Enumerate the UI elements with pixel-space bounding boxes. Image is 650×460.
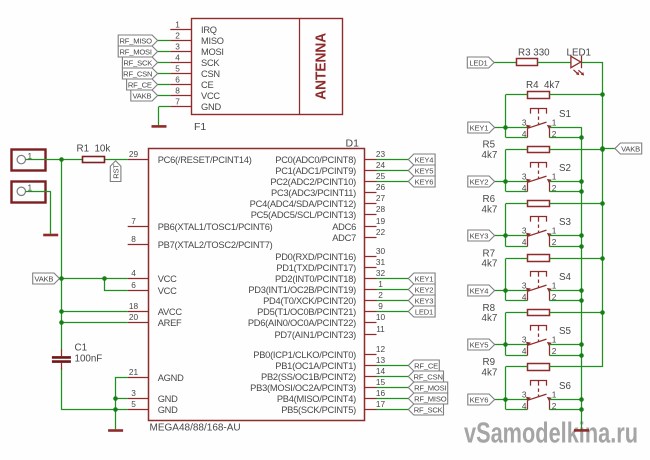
wire R7 right lead to VAKB rail bbox=[550, 258, 603, 260]
wire S4 pin2 to common bbox=[549, 300, 581, 302]
svg-text:PD7(AIN1/PCINT23): PD7(AIN1/PCINT23) bbox=[274, 330, 356, 340]
wire net KEY2 vertical bbox=[505, 150, 507, 192]
wire net KEY1 to D1 bbox=[377, 278, 409, 280]
svg-text:VAKB: VAKB bbox=[621, 144, 640, 153]
svg-text:1: 1 bbox=[175, 19, 180, 29]
pin D1.30 PD0(RXD/PCINT16) (right) bbox=[275, 246, 385, 262]
net flag LED1 at D1 bbox=[408, 306, 435, 317]
svg-text:AGND: AGND bbox=[158, 373, 184, 383]
net flag KEY4 (right col) bbox=[468, 285, 495, 296]
wire R4 left lead bbox=[506, 94, 528, 96]
wire net VAKB to F1 bbox=[158, 95, 171, 97]
pin D1.21 AGND (left) bbox=[128, 367, 184, 383]
pin D1.13 PB1(OC1A/PCINT1) (right) bbox=[275, 355, 385, 371]
pin D1.15 PB3(MOSI/OC2A/PCINT3) (right) bbox=[250, 377, 385, 393]
svg-text:S2: S2 bbox=[559, 163, 571, 174]
svg-text:4k7: 4k7 bbox=[482, 313, 498, 324]
svg-text:28: 28 bbox=[376, 204, 386, 214]
svg-text:VCC: VCC bbox=[201, 91, 220, 101]
svg-text:PD4(T0/XCK/PCINT20): PD4(T0/XCK/PCINT20) bbox=[263, 296, 356, 306]
svg-text:GND: GND bbox=[158, 394, 178, 404]
wire R6 right lead to VAKB rail bbox=[550, 203, 603, 205]
junction dots S3 bbox=[503, 201, 605, 249]
svg-text:4k7: 4k7 bbox=[482, 368, 498, 379]
wire S6 pin1 to common bbox=[549, 399, 581, 401]
svg-text:4k7: 4k7 bbox=[482, 204, 498, 215]
svg-text:RST: RST bbox=[111, 164, 120, 179]
switch S6 bbox=[526, 381, 552, 410]
junction dots S4 bbox=[503, 256, 605, 303]
svg-text:4: 4 bbox=[175, 52, 180, 62]
wire RST net: X1 to R1 to D1.29 bbox=[26, 159, 128, 161]
svg-text:2: 2 bbox=[552, 346, 557, 356]
net flag KEY3 (right col) bbox=[468, 230, 495, 241]
wire net RF_CSN to D1 bbox=[377, 376, 409, 378]
switch S5 bbox=[526, 326, 552, 356]
svg-text:KEY4: KEY4 bbox=[470, 286, 489, 295]
svg-text:PC3(ADC3/PCINT11): PC3(ADC3/PCINT11) bbox=[271, 188, 356, 198]
ground symbol bottom left bbox=[108, 429, 123, 432]
svg-text:KEY6: KEY6 bbox=[415, 177, 434, 186]
wire net KEY5 vertical bbox=[505, 313, 507, 356]
svg-text:18: 18 bbox=[129, 301, 139, 311]
svg-text:5: 5 bbox=[131, 399, 136, 409]
svg-text:RF_MOSI: RF_MOSI bbox=[414, 383, 446, 392]
net flag VAKB (left) bbox=[33, 273, 60, 284]
pin F1.2 MISO bbox=[170, 30, 223, 46]
net flag RST (vertical) bbox=[110, 161, 121, 182]
svg-text:RF_MOSI: RF_MOSI bbox=[119, 47, 151, 56]
pin numbers S1 3 1 4 2 bbox=[522, 118, 557, 139]
wire VAKB rail (right) bbox=[602, 62, 604, 367]
pin numbers S3 3 1 4 2 bbox=[522, 226, 557, 247]
svg-text:27: 27 bbox=[376, 193, 386, 203]
pin D1.32 PD2(INT0/PCINT18) (right) bbox=[275, 268, 385, 284]
svg-text:VAKB: VAKB bbox=[34, 274, 53, 283]
wire net KEY1 vertical bbox=[505, 95, 507, 138]
svg-text:19: 19 bbox=[376, 216, 386, 226]
svg-text:PB6(XTAL1/TOSC1/PCINT6): PB6(XTAL1/TOSC1/PCINT6) bbox=[158, 222, 273, 232]
svg-text:RF_MISO: RF_MISO bbox=[119, 36, 152, 45]
wire S5 pin2 to common bbox=[549, 355, 581, 357]
wire R3 to LED1 bbox=[538, 62, 571, 64]
svg-text:3: 3 bbox=[522, 335, 527, 345]
svg-text:RF_CSN: RF_CSN bbox=[123, 69, 152, 78]
svg-text:3: 3 bbox=[522, 226, 527, 236]
svg-text:PB2(SS/OC1B/PCINT2): PB2(SS/OC1B/PCINT2) bbox=[261, 372, 356, 382]
svg-text:PC1(ADC1/PCINT9): PC1(ADC1/PCINT9) bbox=[275, 166, 356, 176]
wire S3 pin2 to common bbox=[549, 246, 581, 248]
wire net KEY6 vertical bbox=[505, 367, 507, 410]
svg-text:3: 3 bbox=[522, 172, 527, 182]
svg-text:11: 11 bbox=[376, 324, 385, 334]
net flag KEY6 (right col) bbox=[468, 394, 495, 405]
net flag VAKB (right) bbox=[615, 143, 642, 154]
wire R6 left lead bbox=[506, 203, 528, 205]
svg-text:1: 1 bbox=[552, 390, 557, 400]
svg-text:MEGA48/88/168-AU: MEGA48/88/168-AU bbox=[150, 423, 241, 434]
pin D1.8 PB7(XTAL2/TOSC2/PCINT7) (left) bbox=[128, 234, 273, 250]
pin D1.5 GND (left) bbox=[128, 399, 178, 415]
svg-text:PC2(ADC2/PCINT10): PC2(ADC2/PCINT10) bbox=[270, 177, 356, 187]
wire net RF_SCK to D1 bbox=[377, 409, 409, 411]
pin D1.29 PC6(/RESET/PCINT14) (left) bbox=[128, 149, 252, 165]
svg-text:3: 3 bbox=[522, 390, 527, 400]
svg-text:S1: S1 bbox=[559, 109, 571, 120]
svg-text:PD6(AIN0/OC0A/PCINT22): PD6(AIN0/OC0A/PCINT22) bbox=[248, 318, 356, 328]
svg-text:100nF: 100nF bbox=[75, 354, 103, 365]
wire VAKB vertical rail (left) bbox=[61, 160, 63, 410]
svg-text:KEY3: KEY3 bbox=[470, 231, 489, 240]
wire R8 right lead to VAKB rail bbox=[550, 312, 603, 314]
net flag VAKB bbox=[131, 90, 158, 101]
ground symbol under F1 bbox=[152, 125, 167, 128]
svg-text:4: 4 bbox=[522, 346, 527, 356]
wire net RF_MOSI to D1 bbox=[377, 387, 409, 389]
svg-text:4k7: 4k7 bbox=[482, 150, 498, 161]
value label R9 4k7 bbox=[482, 357, 498, 378]
wire net KEY3 vertical bbox=[505, 204, 507, 247]
wire S1 pin2 to common bbox=[549, 137, 581, 139]
net flag RF_SCK at D1 bbox=[408, 404, 443, 415]
svg-text:F1: F1 bbox=[194, 121, 206, 133]
net flag RF_SCK bbox=[122, 57, 157, 68]
ground symbol under X2 bbox=[43, 234, 58, 237]
svg-text:2: 2 bbox=[175, 30, 180, 40]
svg-text:KEY1: KEY1 bbox=[470, 123, 489, 132]
net flag RF_MOSI bbox=[118, 46, 157, 57]
svg-text:7: 7 bbox=[131, 216, 136, 226]
wire net LED1 flag to R3 bbox=[494, 62, 517, 64]
svg-text:VAKB: VAKB bbox=[132, 91, 151, 100]
resistor R7 bbox=[528, 255, 550, 262]
svg-text:32: 32 bbox=[376, 268, 386, 278]
wire AVCC bbox=[62, 311, 128, 313]
wire net RF_CSN to F1 bbox=[158, 73, 171, 75]
capacitor C1 bbox=[52, 350, 71, 370]
svg-text:PC4(ADC4/SDA/PCINT12): PC4(ADC4/SDA/PCINT12) bbox=[250, 199, 356, 209]
svg-text:24: 24 bbox=[376, 160, 386, 170]
svg-text:S4: S4 bbox=[559, 272, 572, 283]
net flag RF_CSN bbox=[122, 68, 157, 79]
svg-text:S3: S3 bbox=[559, 217, 572, 228]
wire R5 right lead to VAKB rail bbox=[550, 149, 603, 151]
resistor R1 bbox=[83, 157, 105, 163]
svg-text:4k7: 4k7 bbox=[482, 259, 498, 270]
resistor R5 bbox=[528, 147, 550, 153]
wire net KEY4 to D1 bbox=[377, 159, 409, 161]
svg-text:29: 29 bbox=[129, 149, 139, 159]
net flag RF_MISO at D1 bbox=[408, 393, 447, 404]
svg-text:21: 21 bbox=[129, 367, 139, 377]
wire LED1 to VAKB rail bbox=[582, 62, 603, 64]
wire net KEY5 flag to switch bbox=[495, 345, 528, 356]
svg-text:ANTENNA: ANTENNA bbox=[313, 32, 329, 99]
svg-text:16: 16 bbox=[376, 388, 386, 398]
svg-text:2: 2 bbox=[378, 290, 383, 300]
svg-text:PB5(SCK/PCINT5): PB5(SCK/PCINT5) bbox=[281, 405, 356, 415]
svg-text:9: 9 bbox=[378, 301, 383, 311]
wire AREF bbox=[62, 322, 128, 324]
svg-text:6: 6 bbox=[131, 280, 136, 290]
wire S3 pin1 to common bbox=[549, 235, 581, 237]
svg-text:PB7(XTAL2/TOSC2/PCINT7): PB7(XTAL2/TOSC2/PCINT7) bbox=[158, 240, 273, 250]
pin D1.26 PC3(ADC3/PCINT11) (right) bbox=[271, 182, 385, 198]
svg-text:PB1(OC1A/PCINT1): PB1(OC1A/PCINT1) bbox=[275, 361, 356, 371]
net flag KEY3 at D1 bbox=[408, 295, 435, 306]
svg-text:17: 17 bbox=[376, 399, 386, 409]
svg-text:26: 26 bbox=[376, 182, 386, 192]
wire S2 pin2 to common bbox=[549, 191, 581, 193]
svg-text:PD1(TXD/PCINT17): PD1(TXD/PCINT17) bbox=[276, 263, 356, 273]
svg-text:1: 1 bbox=[552, 118, 557, 128]
svg-text:S6: S6 bbox=[559, 381, 572, 392]
wire net RF_MOSI to F1 bbox=[158, 51, 171, 53]
svg-text:RF_SCK: RF_SCK bbox=[123, 58, 152, 67]
svg-text:4: 4 bbox=[131, 268, 136, 278]
svg-text:vSamodelkina.ru: vSamodelkina.ru bbox=[464, 418, 638, 450]
svg-text:SCK: SCK bbox=[201, 58, 220, 68]
svg-text:GND: GND bbox=[158, 405, 178, 415]
svg-text:8: 8 bbox=[175, 85, 180, 95]
wire net KEY2 to D1 bbox=[377, 289, 409, 291]
svg-text:R3 330: R3 330 bbox=[518, 48, 550, 59]
connector pad X2 bbox=[12, 182, 46, 203]
switch S4 bbox=[526, 272, 552, 301]
svg-text:3: 3 bbox=[522, 281, 527, 291]
wire net RF_CE to F1 bbox=[158, 84, 171, 86]
svg-text:RF_CE: RF_CE bbox=[128, 80, 152, 89]
svg-text:LED1: LED1 bbox=[567, 48, 592, 59]
pin D1.17 PB5(SCK/PCINT5) (right) bbox=[281, 399, 385, 415]
value label R6 4k7 bbox=[482, 194, 498, 215]
net flag KEY5 at D1 bbox=[408, 165, 435, 176]
wire switch-common GND line bbox=[581, 127, 583, 429]
pin D1.19 ADC6 (right) bbox=[332, 216, 385, 232]
junction dot VAKB flag row bbox=[600, 146, 605, 151]
resistor R8 bbox=[528, 310, 550, 316]
svg-text:LED1: LED1 bbox=[415, 307, 433, 316]
svg-text:KEY2: KEY2 bbox=[470, 177, 489, 186]
wire net RF_CE to D1 bbox=[377, 365, 409, 367]
connector F1 body bbox=[192, 18, 343, 115]
net flag RF_CSN at D1 bbox=[408, 371, 443, 382]
wire R5 left lead bbox=[506, 149, 528, 151]
svg-text:KEY4: KEY4 bbox=[415, 155, 434, 164]
wire S6 pin2 to common bbox=[549, 409, 581, 411]
svg-text:LED1: LED1 bbox=[469, 58, 487, 67]
svg-text:C1: C1 bbox=[75, 343, 88, 354]
svg-text:10: 10 bbox=[376, 312, 386, 322]
svg-text:PD2(INT0/PCINT18): PD2(INT0/PCINT18) bbox=[275, 274, 356, 284]
wire VAKB to VCC pins bbox=[62, 279, 128, 291]
pin D1.1 PD3(INT1/OC2B/PCINT19) (right) bbox=[248, 279, 383, 295]
svg-text:RF_CE: RF_CE bbox=[414, 361, 438, 370]
pin F1.5 CSN bbox=[170, 63, 220, 79]
pin D1.7 PB6(XTAL1/TOSC1/PCINT6) (left) bbox=[128, 216, 273, 232]
wire R9 left lead bbox=[506, 366, 528, 368]
svg-text:25: 25 bbox=[376, 171, 386, 181]
svg-text:7: 7 bbox=[175, 96, 180, 106]
wire net KEY3 to D1 bbox=[377, 300, 409, 302]
svg-text:IRQ: IRQ bbox=[201, 25, 217, 35]
svg-text:3: 3 bbox=[175, 41, 180, 51]
svg-text:2: 2 bbox=[552, 237, 557, 247]
junction dots left rail bbox=[59, 157, 118, 412]
net flag KEY4 at D1 bbox=[408, 154, 435, 165]
net flag KEY2 (right col) bbox=[468, 176, 495, 187]
wire net KEY2 flag to switch bbox=[495, 182, 528, 192]
svg-text:CE: CE bbox=[201, 80, 213, 90]
svg-text:30: 30 bbox=[376, 246, 386, 256]
svg-text:20: 20 bbox=[129, 312, 139, 322]
pin F1.7 GND bbox=[170, 96, 221, 112]
svg-text:PD0(RXD/PCINT16): PD0(RXD/PCINT16) bbox=[275, 252, 356, 262]
pin D1.25 PC2(ADC2/PCINT10) (right) bbox=[270, 171, 385, 187]
connector pad X1 bbox=[12, 150, 46, 171]
svg-text:3: 3 bbox=[131, 388, 136, 398]
pin D1.10 PD6(AIN0/OC0A/PCINT22) (right) bbox=[248, 312, 386, 328]
svg-text:6: 6 bbox=[175, 74, 180, 84]
svg-text:PD3(INT1/OC2B/PCINT19): PD3(INT1/OC2B/PCINT19) bbox=[248, 285, 356, 295]
pin D1.9 PD5(T1/OC0B/PCINT21) (right) bbox=[257, 301, 383, 317]
svg-text:8: 8 bbox=[131, 234, 136, 244]
value label R8 4k7 bbox=[482, 303, 498, 324]
wire R4 right lead to VAKB rail bbox=[550, 94, 603, 96]
wire GND bottom left bbox=[62, 378, 128, 430]
wire X2 to ground bbox=[26, 191, 51, 234]
wire net KEY5 to D1 bbox=[377, 170, 409, 172]
pin F1.6 CE bbox=[170, 74, 213, 90]
svg-text:KEY6: KEY6 bbox=[470, 395, 489, 404]
svg-text:1: 1 bbox=[552, 335, 557, 345]
svg-text:RF_SCK: RF_SCK bbox=[414, 405, 443, 414]
pin D1.12 PB0(ICP1/CLKO/PCINT0) (right) bbox=[253, 344, 385, 360]
svg-text:R4 4k7: R4 4k7 bbox=[526, 80, 560, 91]
pin numbers S4 3 1 4 2 bbox=[522, 281, 557, 302]
pin D1.18 AVCC (left) bbox=[128, 301, 183, 317]
net flag KEY2 at D1 bbox=[408, 284, 435, 295]
svg-text:KEY5: KEY5 bbox=[470, 340, 489, 349]
net flag RF_CE bbox=[127, 79, 158, 90]
wire net LED1 to D1 bbox=[377, 311, 409, 313]
pin F1.8 VCC bbox=[170, 85, 220, 101]
wire net KEY6 flag to switch bbox=[495, 400, 528, 410]
pin D1.3 GND (left) bbox=[128, 388, 178, 404]
svg-text:1: 1 bbox=[552, 281, 557, 291]
svg-text:PB3(MOSI/OC2A/PCINT3): PB3(MOSI/OC2A/PCINT3) bbox=[250, 383, 356, 393]
svg-text:4: 4 bbox=[522, 237, 527, 247]
switch S3 bbox=[526, 217, 552, 247]
resistor R4 bbox=[528, 92, 550, 99]
svg-text:AREF: AREF bbox=[158, 318, 182, 328]
svg-text:GND: GND bbox=[201, 102, 221, 112]
svg-text:13: 13 bbox=[376, 355, 386, 365]
wire S2 pin1 to common bbox=[549, 181, 581, 183]
svg-text:VCC: VCC bbox=[158, 274, 177, 284]
net flag KEY6 at D1 bbox=[408, 176, 435, 187]
svg-text:KEY3: KEY3 bbox=[415, 296, 434, 305]
resistor R9 bbox=[528, 364, 550, 371]
pin D1.16 PB4(MISO/PCINT4) (right) bbox=[277, 388, 386, 404]
svg-text:15: 15 bbox=[376, 377, 386, 387]
svg-text:12: 12 bbox=[376, 344, 386, 354]
junction dots S2 bbox=[503, 147, 605, 194]
pin D1.20 AREF (left) bbox=[128, 312, 182, 328]
resistor R3 bbox=[517, 59, 538, 66]
wire net RF_SCK to F1 bbox=[158, 62, 171, 64]
svg-text:5: 5 bbox=[175, 63, 180, 73]
switch S2 bbox=[526, 163, 552, 192]
pin numbers S2 3 1 4 2 bbox=[522, 172, 557, 193]
svg-text:14: 14 bbox=[376, 366, 386, 376]
junction dots S6 bbox=[503, 397, 584, 412]
svg-text:1: 1 bbox=[552, 172, 557, 182]
junction dots S1 bbox=[503, 92, 605, 140]
svg-text:PB0(ICP1/CLKO/PCINT0): PB0(ICP1/CLKO/PCINT0) bbox=[253, 350, 356, 360]
pin D1.22 ADC7 (right) bbox=[332, 227, 385, 243]
net flag KEY1 (right col) bbox=[468, 122, 495, 133]
net flag KEY1 at D1 bbox=[408, 273, 435, 284]
wire S5 pin1 to common bbox=[549, 344, 581, 346]
wire R9 right lead to VAKB rail bbox=[550, 366, 603, 368]
svg-text:KEY2: KEY2 bbox=[415, 285, 434, 294]
pin D1.23 PC0(ADC0/PCINT8) (right) bbox=[275, 149, 385, 165]
svg-text:MOSI: MOSI bbox=[201, 47, 224, 57]
pin D1.14 PB2(SS/OC1B/PCINT2) (right) bbox=[261, 366, 385, 382]
svg-text:ADC7: ADC7 bbox=[332, 233, 356, 243]
wire R7 left lead bbox=[506, 258, 528, 260]
svg-text:3: 3 bbox=[522, 118, 527, 128]
svg-text:PD5(T1/OC0B/PCINT21): PD5(T1/OC0B/PCINT21) bbox=[257, 307, 356, 317]
svg-text:4: 4 bbox=[522, 401, 527, 411]
net flag RF_MOSI at D1 bbox=[408, 382, 447, 393]
svg-text:4: 4 bbox=[522, 129, 527, 139]
pin F1.3 MOSI bbox=[170, 41, 223, 57]
pin D1.27 PC4(ADC4/SDA/PCINT12) (right) bbox=[250, 193, 386, 209]
svg-text:31: 31 bbox=[376, 257, 386, 267]
svg-text:KEY1: KEY1 bbox=[415, 274, 434, 283]
wire VAKB rail to flag bbox=[603, 148, 615, 150]
wire net KEY4 vertical bbox=[505, 259, 507, 301]
wire R8 left lead bbox=[506, 312, 528, 314]
pin F1.1 IRQ bbox=[170, 19, 216, 35]
svg-text:MISO: MISO bbox=[201, 36, 224, 46]
svg-text:22: 22 bbox=[376, 227, 386, 237]
net flag KEY5 (right col) bbox=[468, 339, 495, 350]
wire S4 pin1 to common bbox=[549, 290, 581, 292]
svg-text:CSN: CSN bbox=[201, 69, 220, 79]
svg-text:PB4(MISO/PCINT4): PB4(MISO/PCINT4) bbox=[277, 394, 356, 404]
resistor R6 bbox=[528, 201, 550, 207]
value label C1 100nF bbox=[75, 343, 103, 365]
svg-text:KEY5: KEY5 bbox=[415, 166, 434, 175]
wire net KEY3 flag to switch bbox=[495, 236, 528, 247]
pin D1.31 PD1(TXD/PCINT17) (right) bbox=[276, 257, 385, 273]
value label R7 4k7 bbox=[482, 248, 498, 269]
svg-text:R1 10k: R1 10k bbox=[77, 144, 111, 155]
pin D1.28 PC5(ADC5/SCL/PCINT13) (right) bbox=[251, 204, 386, 220]
svg-text:PC5(ADC5/SCL/PCINT13): PC5(ADC5/SCL/PCINT13) bbox=[251, 210, 356, 220]
wire net KEY4 flag to switch bbox=[495, 291, 528, 301]
pin D1.6 VCC (left) bbox=[128, 280, 177, 296]
pin D1.4 VCC (left) bbox=[128, 268, 177, 284]
svg-text:1: 1 bbox=[378, 279, 383, 289]
svg-text:4: 4 bbox=[522, 183, 527, 193]
ground symbol bottom right bbox=[574, 429, 589, 432]
wire net KEY6 to D1 bbox=[377, 181, 409, 183]
svg-text:4: 4 bbox=[522, 292, 527, 302]
